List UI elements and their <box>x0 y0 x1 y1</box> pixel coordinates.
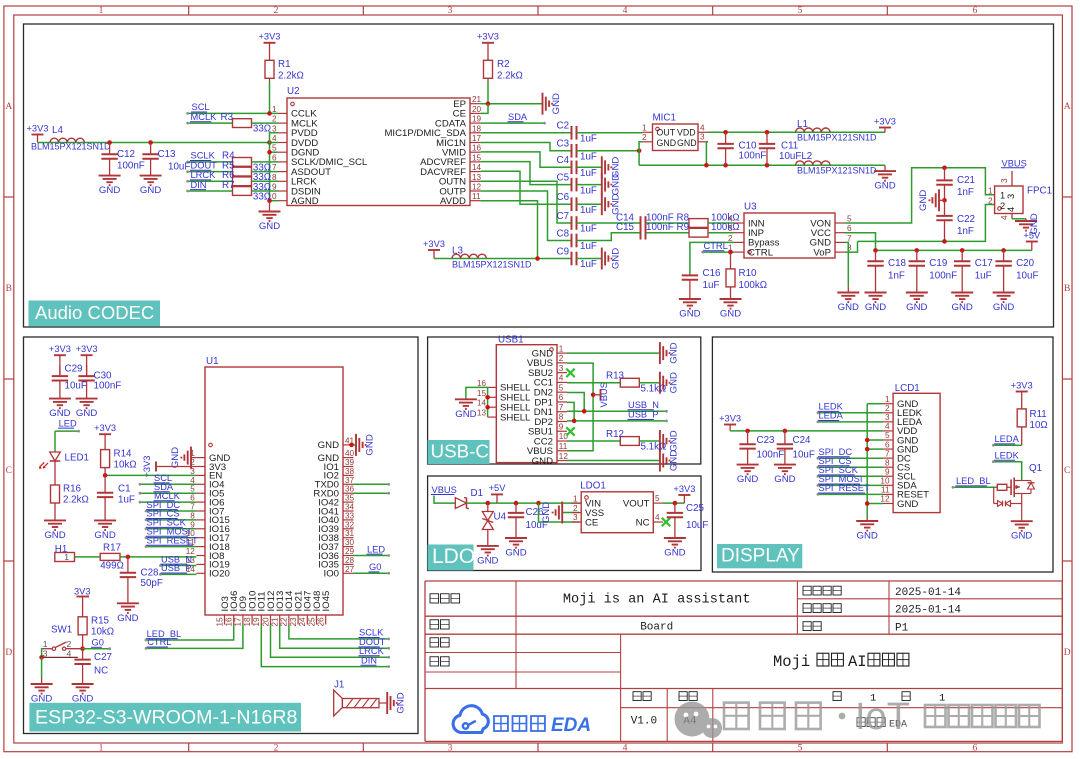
svg-text:R10: R10 <box>739 268 758 279</box>
svg-text:C18: C18 <box>888 258 907 269</box>
svg-text:6: 6 <box>559 393 564 402</box>
svg-text:IO0: IO0 <box>324 569 339 580</box>
svg-text:2025-01-14: 2025-01-14 <box>895 587 961 599</box>
svg-text:BLM15PX121SN1D: BLM15PX121SN1D <box>31 142 111 152</box>
svg-text:LDO1: LDO1 <box>580 480 606 491</box>
svg-text:GND: GND <box>551 93 562 114</box>
svg-text:VDD: VDD <box>677 128 696 138</box>
svg-text:1nF: 1nF <box>957 226 974 237</box>
svg-text:R12: R12 <box>606 429 624 440</box>
svg-text:17: 17 <box>234 617 243 627</box>
svg-text:30: 30 <box>345 538 355 547</box>
svg-text:OUT: OUT <box>657 128 676 138</box>
svg-text:DIN: DIN <box>361 655 377 665</box>
svg-text:3: 3 <box>448 6 453 16</box>
svg-text:4: 4 <box>1000 215 1009 220</box>
svg-text:3: 3 <box>573 513 578 522</box>
svg-text:3: 3 <box>700 133 705 142</box>
svg-text:AGND: AGND <box>291 196 319 207</box>
svg-text:+3V3: +3V3 <box>259 32 281 42</box>
svg-text:3: 3 <box>1006 194 1016 199</box>
svg-text:26: 26 <box>317 617 326 627</box>
svg-text:USB-C: USB-C <box>431 440 489 461</box>
svg-text:L1: L1 <box>797 119 808 130</box>
svg-text:1: 1 <box>559 344 564 353</box>
svg-text:C21: C21 <box>957 175 975 186</box>
svg-text:GND: GND <box>668 450 679 471</box>
svg-text:1uF: 1uF <box>580 134 597 145</box>
svg-text:1nF: 1nF <box>888 271 905 282</box>
svg-text:50pF: 50pF <box>141 578 163 589</box>
svg-text:C12: C12 <box>117 149 135 160</box>
svg-text:R1: R1 <box>278 59 291 70</box>
svg-text:1: 1 <box>642 124 647 133</box>
svg-text:V1.0: V1.0 <box>631 716 657 728</box>
svg-text:2: 2 <box>728 234 733 243</box>
svg-text:A: A <box>1064 102 1071 112</box>
svg-text:VBUS: VBUS <box>1002 158 1027 168</box>
svg-text:R17: R17 <box>103 542 121 553</box>
svg-text:C8: C8 <box>557 228 570 239</box>
svg-text:5: 5 <box>885 431 890 440</box>
svg-text:33Ω: 33Ω <box>253 192 271 203</box>
svg-text:GND: GND <box>677 138 697 148</box>
svg-text:15: 15 <box>215 617 224 627</box>
svg-text:IO20: IO20 <box>209 569 230 580</box>
svg-text:100nF: 100nF <box>117 161 145 172</box>
svg-text:GND: GND <box>874 181 895 192</box>
svg-text:GND: GND <box>396 692 407 713</box>
svg-text:20: 20 <box>261 617 270 627</box>
svg-text:U3: U3 <box>744 202 757 213</box>
svg-text:1: 1 <box>939 693 945 705</box>
svg-text:GND: GND <box>76 408 97 419</box>
svg-text:GND: GND <box>532 456 553 467</box>
svg-text:SCL: SCL <box>192 102 210 112</box>
svg-text:LEDK: LEDK <box>995 451 1020 461</box>
svg-text:7: 7 <box>190 503 195 512</box>
svg-text:2.2kΩ: 2.2kΩ <box>497 71 523 82</box>
svg-text:GND: GND <box>541 502 552 523</box>
svg-text:+3V3: +3V3 <box>94 423 116 433</box>
svg-text:GND: GND <box>737 474 758 485</box>
svg-text:4: 4 <box>67 648 72 658</box>
svg-text:SPI_RESET: SPI_RESET <box>147 535 198 545</box>
svg-text:21: 21 <box>472 95 482 104</box>
svg-text:5.1kΩ: 5.1kΩ <box>641 383 667 394</box>
svg-text:6: 6 <box>847 224 852 233</box>
svg-text:8: 8 <box>190 511 195 520</box>
svg-text:18: 18 <box>243 617 252 627</box>
svg-text:DIN: DIN <box>191 180 207 190</box>
svg-text:U4: U4 <box>494 512 507 523</box>
svg-text:33: 33 <box>345 511 355 520</box>
svg-text:CTRL: CTRL <box>748 247 774 258</box>
svg-text:7: 7 <box>885 449 890 458</box>
svg-text:15: 15 <box>477 389 487 398</box>
svg-text:IoT: IoT <box>855 696 910 738</box>
svg-text:10Ω: 10Ω <box>1030 420 1048 431</box>
svg-text:2.2kΩ: 2.2kΩ <box>63 495 89 506</box>
svg-text:20: 20 <box>472 105 482 114</box>
svg-text:5: 5 <box>798 743 803 753</box>
svg-text:10uF: 10uF <box>686 520 708 531</box>
svg-text:1uF: 1uF <box>580 241 597 252</box>
svg-text:1: 1 <box>1000 191 1005 201</box>
svg-text:5.1kΩ: 5.1kΩ <box>641 442 667 453</box>
svg-text:BLM15PX121SN1D: BLM15PX121SN1D <box>797 133 877 143</box>
svg-text:DOUT: DOUT <box>191 160 218 170</box>
svg-text:100nF: 100nF <box>929 271 957 282</box>
svg-text:18: 18 <box>472 124 482 133</box>
svg-text:R15: R15 <box>91 616 110 627</box>
svg-text:U1: U1 <box>206 356 219 367</box>
svg-text:4: 4 <box>885 422 890 431</box>
svg-text:31: 31 <box>345 529 355 538</box>
svg-text:BLM15PX121SN1D: BLM15PX121SN1D <box>452 260 532 270</box>
svg-text:C25: C25 <box>686 503 705 514</box>
svg-text:22: 22 <box>280 617 289 627</box>
svg-text:GND: GND <box>668 372 679 393</box>
svg-text:B: B <box>1064 284 1070 294</box>
svg-text:5: 5 <box>272 144 277 153</box>
svg-text:GND: GND <box>668 342 679 363</box>
svg-text:4: 4 <box>655 513 660 522</box>
svg-text:34: 34 <box>345 503 355 512</box>
svg-text:2: 2 <box>559 354 564 363</box>
svg-text:C7: C7 <box>557 211 570 222</box>
svg-text:LEDA: LEDA <box>819 411 844 421</box>
svg-text:25: 25 <box>307 617 316 627</box>
svg-text:C1: C1 <box>118 484 131 495</box>
svg-text:LED1: LED1 <box>65 453 90 464</box>
svg-text:GND: GND <box>477 555 498 566</box>
svg-text:LED: LED <box>367 544 385 554</box>
svg-text:+3V3: +3V3 <box>49 344 71 354</box>
svg-text:GND: GND <box>505 548 526 559</box>
svg-text:100nF: 100nF <box>646 222 674 233</box>
svg-text:13: 13 <box>472 173 482 182</box>
svg-text:14: 14 <box>472 163 482 172</box>
svg-text:EDA: EDA <box>551 715 591 736</box>
svg-text:29: 29 <box>345 547 355 556</box>
svg-text:L3: L3 <box>452 246 463 257</box>
svg-text:VBUS: VBUS <box>432 485 457 495</box>
svg-text:R13: R13 <box>606 371 625 382</box>
svg-text:2025-01-14: 2025-01-14 <box>895 605 961 617</box>
svg-text:G0: G0 <box>369 562 381 572</box>
svg-text:9: 9 <box>272 183 277 192</box>
svg-text:C19: C19 <box>929 258 947 269</box>
svg-text:+3V3: +3V3 <box>673 484 695 494</box>
svg-text:16: 16 <box>477 379 487 388</box>
svg-text:3: 3 <box>272 124 277 133</box>
svg-text:GND: GND <box>140 185 161 196</box>
svg-text:GND: GND <box>94 530 115 541</box>
svg-text:GND: GND <box>44 530 65 541</box>
svg-text:LEDA: LEDA <box>995 434 1020 444</box>
svg-text:1: 1 <box>885 395 890 404</box>
svg-text:2: 2 <box>67 639 72 649</box>
svg-text:8: 8 <box>272 173 277 182</box>
svg-text:3V3: 3V3 <box>74 587 91 597</box>
svg-text:C27: C27 <box>94 652 112 663</box>
svg-text:USB_N: USB_N <box>628 400 659 410</box>
svg-text:R14: R14 <box>114 449 133 460</box>
svg-text:2: 2 <box>642 133 647 142</box>
svg-text:4: 4 <box>623 6 628 16</box>
svg-text:C6: C6 <box>557 192 570 203</box>
svg-text:J1: J1 <box>334 680 344 691</box>
svg-text:9: 9 <box>190 520 195 529</box>
svg-text:C3: C3 <box>557 139 570 150</box>
svg-text:DISPLAY: DISPLAY <box>721 545 800 566</box>
svg-text:5: 5 <box>847 215 852 224</box>
svg-text:+5V: +5V <box>489 483 507 493</box>
svg-text:VBUS: VBUS <box>599 382 609 407</box>
svg-text:1uF: 1uF <box>580 205 597 216</box>
svg-text:+3V3: +3V3 <box>27 123 49 133</box>
svg-text:R7: R7 <box>222 180 235 191</box>
svg-text:ESP32-S3-WROOM-1-N16R8: ESP32-S3-WROOM-1-N16R8 <box>35 706 298 728</box>
svg-text:AVDD: AVDD <box>440 196 466 207</box>
svg-text:+3V3: +3V3 <box>719 413 741 423</box>
svg-text:1: 1 <box>988 186 993 195</box>
svg-text:CTRL: CTRL <box>147 637 171 647</box>
svg-text:36: 36 <box>345 485 355 494</box>
svg-text:1: 1 <box>272 105 277 114</box>
svg-text:10uF: 10uF <box>65 381 87 392</box>
svg-text:BLM15PX121SN1D: BLM15PX121SN1D <box>797 166 877 176</box>
svg-text:10: 10 <box>880 477 890 486</box>
svg-text:A: A <box>5 102 12 112</box>
svg-text:GND: GND <box>897 499 918 510</box>
svg-text:4: 4 <box>700 124 705 133</box>
svg-text:7: 7 <box>559 403 564 412</box>
svg-text:SDA: SDA <box>508 112 528 122</box>
svg-text:+3V3: +3V3 <box>874 116 896 126</box>
svg-text:LRCK: LRCK <box>191 170 217 180</box>
svg-text:R2: R2 <box>497 59 510 70</box>
svg-text:+3V3: +3V3 <box>76 344 98 354</box>
svg-text:U2: U2 <box>287 86 300 97</box>
svg-text:P1: P1 <box>895 623 909 635</box>
svg-text:GND: GND <box>31 694 52 705</box>
svg-text:+3V3: +3V3 <box>1011 380 1033 390</box>
svg-text:40: 40 <box>345 449 355 458</box>
svg-text:100nF: 100nF <box>94 381 122 392</box>
svg-text:VoP: VoP <box>813 247 831 258</box>
svg-text:LCD1: LCD1 <box>895 383 920 394</box>
svg-text:4: 4 <box>623 743 628 753</box>
svg-text:GND: GND <box>117 613 138 624</box>
svg-text:Moji is an AI assistant: Moji is an AI assistant <box>563 593 751 608</box>
svg-text:LED: LED <box>59 418 77 428</box>
svg-text:10uFL2: 10uFL2 <box>779 151 812 162</box>
svg-text:1: 1 <box>573 494 578 503</box>
svg-text:GND: GND <box>664 548 685 559</box>
svg-text:L4: L4 <box>52 125 63 136</box>
svg-text:VOUT: VOUT <box>623 498 650 509</box>
svg-text:12: 12 <box>880 495 890 504</box>
svg-text:4: 4 <box>559 374 564 383</box>
svg-text:LED_BL: LED_BL <box>956 476 991 486</box>
svg-text:24: 24 <box>298 617 307 627</box>
svg-text:10kΩ: 10kΩ <box>114 460 137 471</box>
svg-text:2: 2 <box>1000 201 1005 211</box>
svg-text:1: 1 <box>43 639 48 649</box>
svg-text:9: 9 <box>885 467 890 476</box>
svg-text:GND: GND <box>865 302 886 313</box>
svg-text:35: 35 <box>345 494 355 503</box>
svg-text:C5: C5 <box>557 173 570 184</box>
svg-text:Audio CODEC: Audio CODEC <box>35 302 154 323</box>
svg-text:C20: C20 <box>1016 258 1035 269</box>
svg-text:IO45: IO45 <box>321 591 332 612</box>
svg-text:B: B <box>6 284 12 294</box>
svg-text:CE: CE <box>585 517 598 528</box>
svg-text:27: 27 <box>345 565 355 574</box>
svg-text:SPI_RESET: SPI_RESET <box>819 483 870 493</box>
svg-text:39: 39 <box>345 458 355 467</box>
svg-text:4: 4 <box>1006 207 1016 212</box>
svg-text:MIC1: MIC1 <box>653 113 676 124</box>
svg-text:21: 21 <box>271 617 280 627</box>
svg-text:16: 16 <box>472 144 482 153</box>
svg-text:12: 12 <box>472 183 482 192</box>
svg-text:1uF: 1uF <box>118 495 135 506</box>
svg-text:GND: GND <box>774 474 795 485</box>
svg-text:3: 3 <box>728 224 733 233</box>
svg-text:Q1: Q1 <box>1029 463 1042 474</box>
svg-text:Board: Board <box>640 622 673 634</box>
svg-text:GND: GND <box>610 248 621 269</box>
svg-text:5: 5 <box>798 6 803 16</box>
svg-text:GND: GND <box>993 302 1014 313</box>
svg-text:C23: C23 <box>757 435 776 446</box>
svg-text:SCLK: SCLK <box>191 151 216 161</box>
svg-text:2: 2 <box>573 504 578 513</box>
svg-text:C2: C2 <box>557 121 570 132</box>
svg-text:GND: GND <box>1029 213 1040 234</box>
svg-text:19: 19 <box>252 617 261 627</box>
svg-text:+3V3: +3V3 <box>423 239 445 249</box>
svg-text:2.2kΩ: 2.2kΩ <box>278 71 304 82</box>
svg-text:GND: GND <box>952 302 973 313</box>
svg-text:14: 14 <box>477 399 487 408</box>
svg-text:1uF: 1uF <box>580 152 597 163</box>
svg-text:100nF: 100nF <box>739 151 767 162</box>
svg-text:C4: C4 <box>557 155 570 166</box>
svg-text:3: 3 <box>1000 178 1009 183</box>
svg-text:1uF: 1uF <box>703 280 720 291</box>
svg-text:GND: GND <box>857 531 878 542</box>
svg-text:8: 8 <box>559 413 564 422</box>
svg-text:C9: C9 <box>557 246 570 257</box>
svg-text:D1: D1 <box>471 488 484 499</box>
svg-text:GND: GND <box>259 221 280 232</box>
svg-text:7: 7 <box>847 234 852 243</box>
svg-text:10kΩ: 10kΩ <box>91 627 114 638</box>
svg-text:Moji: Moji <box>773 653 810 671</box>
svg-text:1: 1 <box>64 552 69 562</box>
svg-text:499Ω: 499Ω <box>100 560 124 571</box>
svg-text:SW1: SW1 <box>51 625 72 636</box>
svg-text:19: 19 <box>472 115 482 124</box>
svg-text:9: 9 <box>559 422 564 431</box>
svg-text:GND: GND <box>170 447 181 468</box>
svg-text:100kΩ: 100kΩ <box>739 280 768 291</box>
svg-text:C16: C16 <box>703 268 722 279</box>
svg-text:6: 6 <box>272 153 277 162</box>
svg-text:1uF: 1uF <box>975 271 992 282</box>
svg-text:1uF: 1uF <box>580 259 597 270</box>
svg-text:AI: AI <box>848 653 867 671</box>
svg-text:MCLK: MCLK <box>191 112 218 122</box>
svg-text:4: 4 <box>272 134 277 143</box>
svg-text:3: 3 <box>448 743 453 753</box>
svg-text:+3V3: +3V3 <box>477 32 499 42</box>
svg-text:1uF: 1uF <box>580 168 597 179</box>
svg-text:1: 1 <box>99 6 104 16</box>
svg-text:16: 16 <box>225 617 234 627</box>
svg-text:3: 3 <box>885 413 890 422</box>
svg-text:7: 7 <box>272 163 277 172</box>
svg-text:2: 2 <box>272 115 277 124</box>
svg-text:GND: GND <box>679 309 700 320</box>
svg-text:C28: C28 <box>141 567 160 578</box>
svg-text:C11: C11 <box>781 141 798 152</box>
svg-text:GND: GND <box>906 302 927 313</box>
svg-text:11: 11 <box>559 442 568 451</box>
svg-text:CTRL: CTRL <box>704 241 728 251</box>
svg-text:5: 5 <box>190 485 195 494</box>
svg-text:6: 6 <box>885 440 890 449</box>
svg-text:6: 6 <box>973 743 978 753</box>
svg-text:USB_P: USB_P <box>628 410 659 420</box>
svg-text:8: 8 <box>885 458 890 467</box>
svg-text:R16: R16 <box>63 484 82 495</box>
svg-text:GND: GND <box>1011 531 1032 542</box>
svg-text:GND: GND <box>668 430 679 451</box>
svg-text:23: 23 <box>289 617 298 627</box>
svg-text:SHELL: SHELL <box>500 412 531 423</box>
svg-text:2: 2 <box>988 196 993 205</box>
svg-text:13: 13 <box>477 409 487 418</box>
svg-text:GND: GND <box>657 138 677 148</box>
svg-text:USB1: USB1 <box>498 335 524 346</box>
svg-text:10uF: 10uF <box>1016 271 1038 282</box>
svg-text:6: 6 <box>190 494 195 503</box>
svg-text:1uF: 1uF <box>580 224 597 235</box>
svg-text:15: 15 <box>472 153 482 162</box>
svg-text:R9: R9 <box>677 222 690 233</box>
svg-text:LDO: LDO <box>432 545 475 568</box>
svg-text:C24: C24 <box>793 435 812 446</box>
svg-text:2: 2 <box>274 6 279 16</box>
svg-text:C29: C29 <box>65 364 83 375</box>
svg-text:GND: GND <box>610 174 621 195</box>
svg-text:C22: C22 <box>957 214 975 225</box>
svg-text:GND: GND <box>455 409 476 420</box>
svg-text:R11: R11 <box>1030 409 1047 420</box>
svg-text:10uF: 10uF <box>168 161 190 172</box>
svg-text:USB_P: USB_P <box>161 563 192 573</box>
svg-text:5: 5 <box>655 494 660 503</box>
svg-text:32: 32 <box>345 520 355 529</box>
svg-text:11: 11 <box>881 486 890 495</box>
svg-text:+3V3: +3V3 <box>142 456 152 478</box>
